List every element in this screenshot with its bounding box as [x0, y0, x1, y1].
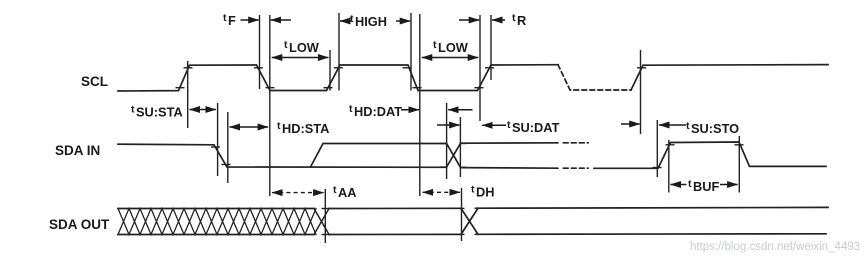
long line at SCL fall2 (tHD:DAT / tDH left)	[419, 14, 421, 196]
line at SCL rise3 (tLOW2 right / tSU:DAT right)	[479, 15, 481, 121]
line tAA right	[324, 189, 326, 243]
dimension vertical lines	[188, 13, 740, 243]
SCL waveform dashed segment	[558, 65, 631, 90]
SDA IN waveform	[118, 142, 826, 168]
line tHIGH left	[338, 13, 340, 91]
tR arrows	[459, 19, 479, 21]
line at SDA rise (tSU:STO right)	[656, 120, 658, 177]
tAA dashed arrow	[272, 192, 324, 194]
line at SCL rise4 (tSU:STO left)	[640, 50, 642, 134]
line tDH right	[461, 188, 463, 241]
SDA OUT crossover X	[461, 208, 478, 234]
line at X left (tHD:DAT right)	[446, 103, 448, 179]
SDA OUT hatch pinch transition	[314, 209, 329, 235]
long line at SCL fall1 (tF right / tHD:STA right / tAA left)	[269, 15, 271, 196]
svg-text:AA: AA	[338, 185, 356, 200]
svg-text:t: t	[284, 39, 288, 51]
svg-text:SU:STA: SU:STA	[136, 105, 183, 120]
svg-text:https://blog.csdn.net/weixin_4: https://blog.csdn.net/weixin_4493	[690, 241, 860, 253]
svg-text:SDA IN: SDA IN	[55, 143, 100, 158]
tBUF arrows	[671, 184, 687, 186]
SDA OUT crosshatch lattice	[118, 209, 316, 235]
svg-text:t: t	[471, 184, 475, 196]
corner tick marks	[176, 68, 744, 235]
SDA IN data crossover X	[447, 143, 461, 167]
svg-text:HD:DAT: HD:DAT	[354, 104, 402, 119]
X right arrow	[437, 124, 460, 126]
svg-text:t: t	[333, 184, 337, 196]
svg-text:SU:STO: SU:STO	[691, 121, 739, 136]
timing parameter labels	[131, 12, 739, 200]
SDA IN X ticks	[441, 143, 448, 145]
SDA OUT band rails	[118, 207, 828, 234]
line tLOW1 right	[329, 50, 331, 91]
SCL waveform solid	[118, 65, 828, 91]
svg-text:t: t	[277, 120, 281, 132]
line tHIGH right	[410, 13, 412, 91]
X left arrow	[448, 109, 472, 111]
svg-text:SCL: SCL	[81, 74, 108, 89]
tHIGH arrows	[340, 20, 352, 22]
SDA IN dashed rail segments	[564, 143, 589, 168]
svg-text:HD:STA: HD:STA	[282, 121, 329, 136]
line tF left	[259, 15, 261, 89]
svg-text:t: t	[131, 104, 135, 116]
svg-text:HIGH: HIGH	[355, 14, 387, 29]
svg-text:t: t	[507, 119, 511, 131]
svg-text:LOW: LOW	[438, 40, 469, 55]
tSU:STO arrows	[621, 123, 640, 125]
tHD:STA arrow	[230, 126, 269, 128]
svg-text:t: t	[223, 12, 227, 24]
svg-text:t: t	[350, 13, 354, 25]
svg-text:t: t	[433, 39, 437, 51]
SDA IN edge ticks	[211, 146, 220, 148]
tSU:DAT arrow	[482, 124, 506, 126]
signal name labels	[49, 74, 110, 232]
tLOW2 arrow	[422, 57, 478, 59]
tSU:STA arrow	[190, 109, 216, 111]
line at SCL rise1 (tSU:STA left)	[187, 61, 189, 128]
svg-text:F: F	[228, 13, 236, 28]
svg-text:BUF: BUF	[693, 179, 719, 194]
svg-text:LOW: LOW	[289, 40, 320, 55]
line tBUF left	[668, 140, 670, 193]
svg-text:t: t	[686, 120, 690, 132]
line at X right (tSU:DAT left)	[459, 117, 461, 177]
svg-text:SU:DAT: SU:DAT	[512, 120, 560, 135]
svg-text:R: R	[517, 13, 526, 28]
line tR right	[490, 15, 492, 80]
line tBUF right / STO pulse fall	[738, 136, 740, 193]
tHD:DAT arrow	[401, 109, 419, 111]
SDA OUT pinch ticks	[322, 208, 330, 210]
svg-text:SDA OUT: SDA OUT	[49, 217, 110, 232]
line tHD:STA left	[227, 112, 229, 183]
tF arrows	[241, 19, 259, 21]
svg-text:t: t	[688, 178, 692, 190]
svg-text:t: t	[349, 103, 353, 115]
svg-text:DH: DH	[476, 185, 494, 200]
tDH dashed arrow	[423, 191, 460, 193]
SDA OUT X ticks	[458, 207, 465, 209]
svg-text:t: t	[512, 12, 516, 24]
dimension arrows	[190, 20, 738, 185]
line at SDA fall start (tSU:STA right)	[217, 103, 219, 176]
tLOW1 arrow	[272, 57, 329, 59]
